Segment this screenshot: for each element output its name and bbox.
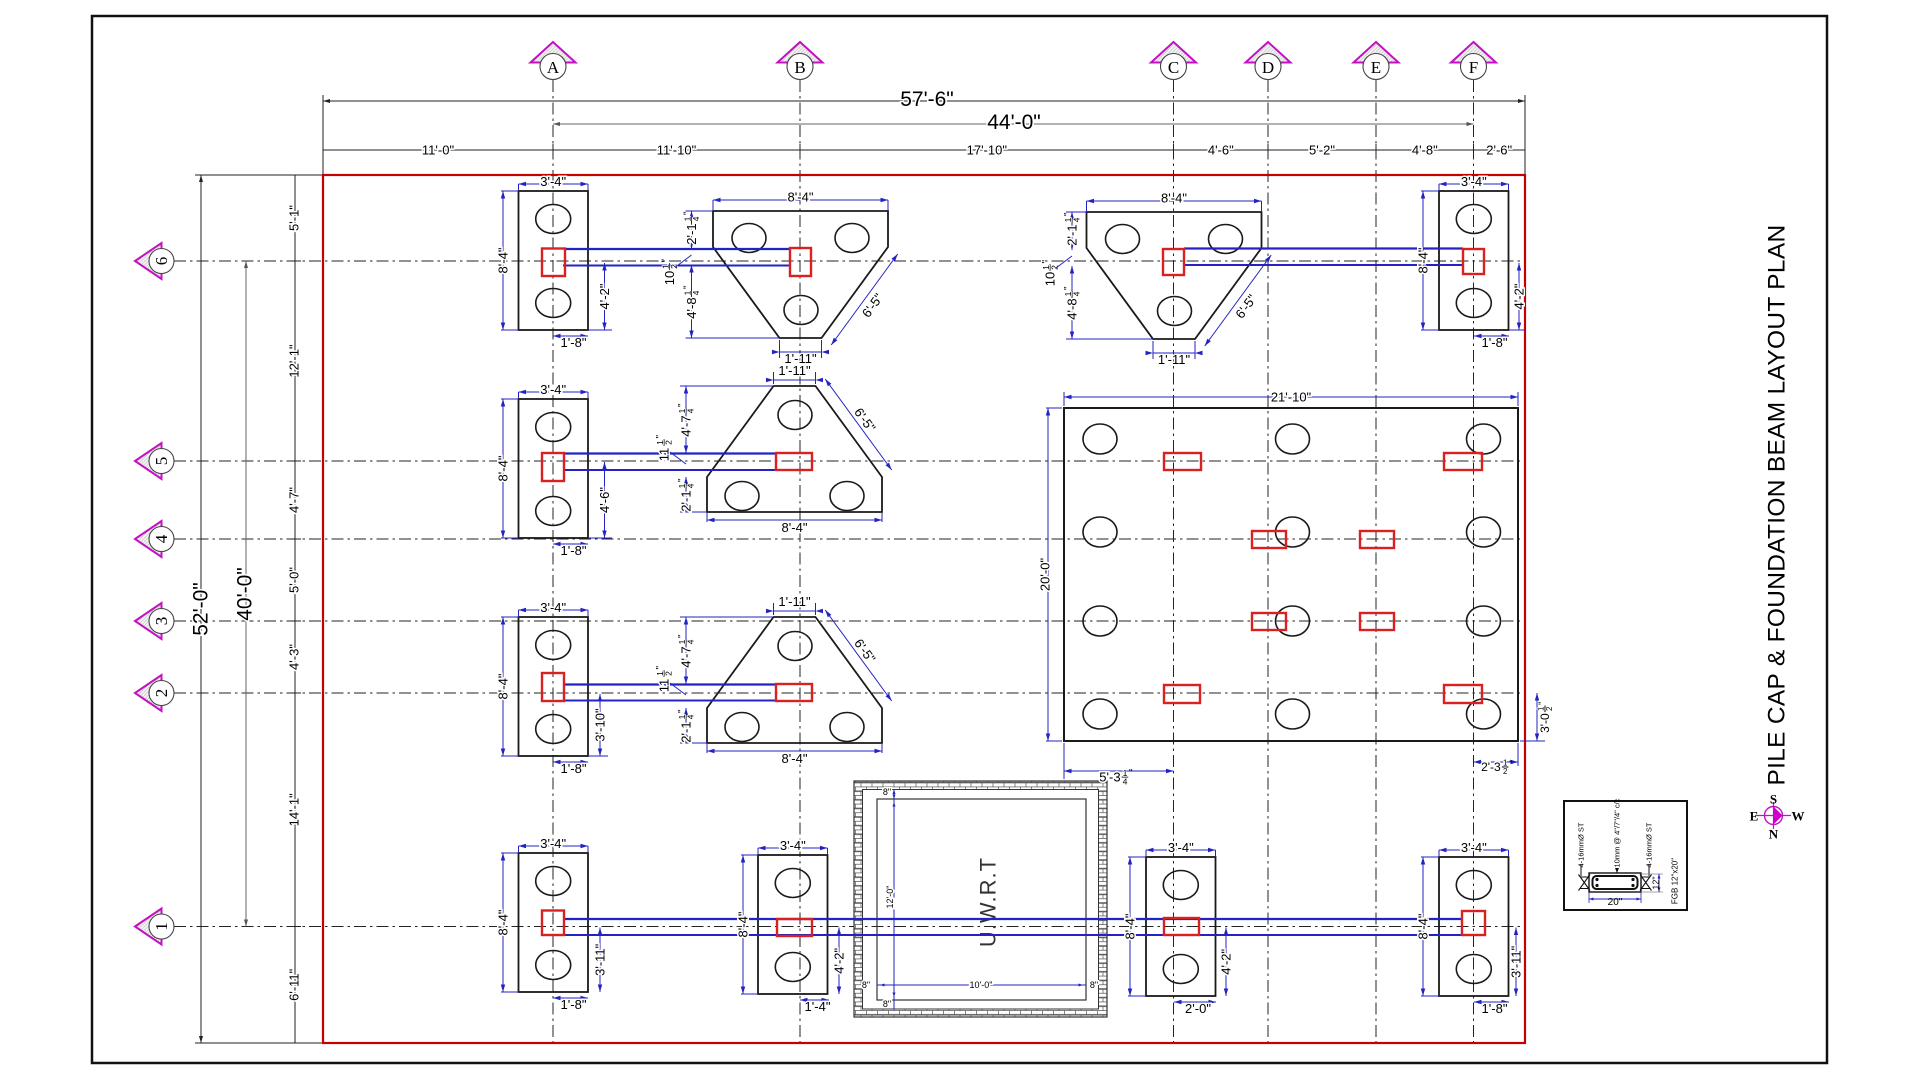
svg-text:4'-7": 4'-7" [287, 487, 302, 513]
svg-text:5'-0": 5'-0" [287, 567, 302, 593]
svg-text:": " [683, 285, 694, 289]
dimension 4'-8 1/4" [1071, 266, 1073, 339]
dimension 8'-4" [706, 513, 708, 522]
svg-text:2'-3: 2'-3 [1481, 760, 1501, 774]
svg-text:1'-8": 1'-8" [561, 335, 587, 350]
svg-text:3'-4": 3'-4" [540, 382, 566, 397]
svg-text:2'-1: 2'-1 [679, 490, 694, 511]
pile cap C1 [1146, 857, 1216, 996]
svg-text:4: 4 [691, 216, 701, 221]
grid line B [799, 80, 801, 1043]
svg-text:8'-4": 8'-4" [782, 751, 808, 766]
grid bubble D [1246, 42, 1291, 80]
dimension 3'-11@ [599, 928, 601, 993]
svg-text:1: 1 [152, 922, 171, 931]
svg-text:8": 8" [883, 999, 891, 1009]
pile cap B1 [758, 855, 828, 994]
dimension 8'-4" [1128, 856, 1146, 858]
svg-text:3: 3 [152, 617, 171, 626]
grid line 3 [174, 620, 1525, 622]
svg-text:5'-1": 5'-1" [287, 205, 302, 231]
svg-text:4'-2": 4'-2" [597, 283, 612, 309]
tank dimension 10'-0" [877, 984, 1086, 986]
foundation beam FGB row 2 A-B [564, 683, 776, 685]
dimension 2'-3 1/2" [1517, 743, 1519, 766]
svg-text:12'-0": 12'-0" [885, 886, 895, 909]
svg-text:W: W [1792, 809, 1805, 824]
svg-text:4'-8: 4'-8 [684, 297, 699, 318]
svg-text:17'-10": 17'-10" [967, 143, 1008, 158]
svg-text:1'-8": 1'-8" [1482, 1001, 1508, 1016]
svg-text:11: 11 [657, 679, 672, 693]
svg-text:20": 20" [1608, 897, 1623, 908]
dimension 1'-11" [773, 603, 775, 615]
column B6 [790, 248, 811, 276]
svg-text:": " [661, 259, 672, 263]
foundation beam FGB row 1 A-F [563, 918, 1462, 920]
svg-text:3'-4": 3'-4" [1461, 840, 1487, 855]
svg-text:2'-6": 2'-6" [1486, 143, 1512, 158]
dimension 3'-4" [1438, 184, 1440, 190]
svg-text:4'-6": 4'-6" [1208, 143, 1234, 158]
column F1 [1462, 911, 1485, 935]
svg-text:8'-4": 8'-4" [736, 911, 751, 937]
dimension 8'-4" [1421, 190, 1439, 192]
svg-text:1'-11": 1'-11" [778, 594, 811, 609]
svg-text:12": 12" [1651, 876, 1661, 889]
raft column D4 [1252, 531, 1286, 548]
dimension 1'-8&quot; [553, 761, 588, 763]
grid line 4 [174, 538, 1525, 540]
svg-text:8'-4": 8'-4" [1123, 913, 1138, 939]
svg-text:3'-4": 3'-4" [1461, 174, 1487, 189]
overall dimension 44'-0" [553, 123, 1474, 125]
tank wall dimension 8" bottom [893, 1000, 895, 1009]
pile cap F1 [1439, 857, 1509, 996]
svg-text:": " [683, 211, 694, 215]
svg-text:4'-6": 4'-6" [597, 487, 612, 513]
dimension 6'-5" [825, 610, 892, 701]
dimension 2'-1 1/4" [1071, 212, 1073, 250]
dimension 8'-4" [501, 398, 519, 400]
svg-text:8'-4": 8'-4" [1416, 247, 1431, 273]
pile cap A6 [519, 191, 589, 330]
svg-text:2: 2 [669, 264, 679, 269]
svg-text:8'-4": 8'-4" [496, 455, 511, 481]
dimension 4'-6@ [604, 462, 606, 538]
grid line F [1473, 80, 1475, 1043]
svg-text:57'-6": 57'-6" [900, 88, 954, 111]
raft column 2-ii [1444, 685, 1482, 703]
svg-text:6: 6 [152, 257, 171, 266]
raft foundation slab [1064, 408, 1518, 741]
raft column E3 [1360, 613, 1394, 630]
svg-text:": " [1509, 758, 1512, 769]
dimension 4'-2@ [604, 263, 606, 330]
svg-text:5'-3: 5'-3 [1099, 770, 1120, 785]
svg-text:11'-10": 11'-10" [657, 143, 697, 158]
pile cap A2 [519, 617, 589, 756]
svg-text:20'-0": 20'-0" [1038, 558, 1053, 592]
svg-text:1'-8": 1'-8" [1482, 335, 1508, 350]
overall dimension 52'-0" [195, 174, 323, 176]
svg-text:2'-1: 2'-1 [679, 721, 694, 742]
dimension 21'-10" [1063, 392, 1065, 406]
dimension 5'-3 1/4" [1063, 743, 1065, 779]
svg-text:40'-0": 40'-0" [234, 567, 257, 621]
svg-text:FGB 12"x20": FGB 12"x20" [1671, 858, 1680, 904]
dimension 3'-4" [1438, 850, 1440, 856]
dimension 3'-4" [1145, 850, 1147, 856]
svg-text:1'-4": 1'-4" [805, 999, 831, 1014]
raft column D3 [1252, 613, 1286, 630]
raft column 5-ii [1444, 453, 1482, 470]
grid bubble 2 [135, 675, 174, 711]
svg-text:N: N [1769, 827, 1779, 842]
dimension 3'-11@ [1515, 928, 1517, 997]
dimension 3'-4" [518, 184, 520, 190]
svg-text:4: 4 [152, 534, 171, 543]
grid line E [1375, 80, 1377, 1043]
svg-text:2: 2 [663, 671, 673, 676]
dimension 8'-4" [712, 200, 714, 210]
grid line 2 [174, 692, 1525, 694]
dimension 11 1/2" beam width [655, 666, 673, 693]
svg-text:8'-4": 8'-4" [788, 190, 814, 205]
pile cap F6 [1439, 191, 1509, 330]
svg-text:4: 4 [685, 408, 695, 413]
pile cap B2 (3-pile) [707, 617, 882, 743]
svg-text:4'-2": 4'-2" [832, 947, 847, 973]
column C6 [1163, 249, 1184, 275]
tank dimension 12'-0" [893, 799, 895, 1000]
dimension 2'-1 1/4" [691, 211, 693, 249]
svg-text:8'-4": 8'-4" [1161, 191, 1187, 206]
column A6 [542, 249, 565, 277]
detail dimension 12" [1641, 873, 1663, 875]
svg-text:F: F [1469, 58, 1478, 77]
foundation beam FGB row 6 C-F [1184, 247, 1463, 249]
svg-text:": " [655, 666, 666, 670]
pile cap A1 [519, 853, 589, 992]
column C1 [1164, 918, 1199, 935]
dimension 4'-2@ [838, 928, 840, 995]
svg-text:3'-4": 3'-4" [780, 838, 806, 853]
svg-text:10: 10 [1043, 272, 1058, 286]
svg-text:11'-0": 11'-0" [422, 143, 455, 158]
grid line A [552, 80, 554, 1043]
svg-text:PILE CAP & FOUNDATION BEAM LAY: PILE CAP & FOUNDATION BEAM LAYOUT PLAN [1764, 225, 1791, 786]
dimension 6'-5" [831, 254, 898, 345]
svg-text:2'-1: 2'-1 [1065, 224, 1080, 245]
grid bubble 1 [135, 909, 174, 945]
dimension 10 1/2" beam width [1041, 260, 1059, 287]
dimension 11 1/2" beam width [655, 435, 673, 462]
svg-text:8'-4": 8'-4" [496, 247, 511, 273]
pile cap B6 (3-pile) [713, 211, 888, 338]
svg-text:4'-7: 4'-7 [679, 646, 694, 667]
svg-text:2: 2 [663, 440, 673, 445]
grid spacing dimensions top [323, 149, 1525, 151]
dimension 3'-4" [518, 846, 520, 852]
overall dimension 57'-6" [322, 95, 324, 175]
pile cap A5 [519, 399, 589, 538]
grid line 1 [174, 926, 1525, 928]
svg-text:": " [677, 709, 688, 713]
grid bubble C [1151, 42, 1196, 80]
dimension 4'-7 1/4" [685, 617, 687, 684]
svg-text:": " [1129, 768, 1133, 779]
dimension 1'-11" [773, 372, 775, 384]
dimension 3'-4" [518, 392, 520, 398]
svg-text:3'-4": 3'-4" [540, 836, 566, 851]
grid line 5 [174, 460, 1525, 462]
dimension 10 1/2" beam width [661, 259, 679, 286]
pile cap B5 (3-pile) [707, 386, 882, 512]
svg-text:4: 4 [1123, 776, 1128, 786]
pile cap C6 (3-pile) [1087, 212, 1262, 339]
svg-text:14'-1": 14'-1" [287, 793, 302, 827]
svg-text:2: 2 [1049, 265, 1059, 270]
svg-text:8'-4": 8'-4" [496, 909, 511, 935]
dimension 1'-8&quot; [553, 335, 588, 337]
svg-text:3'-4": 3'-4" [540, 600, 566, 615]
svg-text:4'-7: 4'-7 [679, 415, 694, 436]
svg-text:44'-0": 44'-0" [987, 111, 1041, 134]
grid line 6 [174, 260, 1525, 262]
dimension 8'-4" [501, 190, 519, 192]
svg-text:": " [677, 634, 688, 638]
svg-text:4: 4 [691, 290, 701, 295]
svg-text:1'-11": 1'-11" [778, 363, 811, 378]
grid bubble 6 [135, 243, 174, 279]
dimension 2'-1 1/4" [685, 477, 687, 512]
svg-text:4'-2": 4'-2" [1512, 283, 1527, 309]
dimension 1'-8&quot; [553, 543, 588, 545]
dimension 8'-4" [706, 744, 708, 753]
dimension 1'-8&quot; [1474, 335, 1509, 337]
column B1 [777, 919, 812, 936]
svg-text:12'-1": 12'-1" [287, 344, 302, 378]
svg-text:3'-4": 3'-4" [540, 174, 566, 189]
tank wall dimension 8" top [893, 790, 895, 800]
raft column 2-i [1164, 685, 1200, 703]
svg-text:1'-11": 1'-11" [1158, 352, 1191, 367]
svg-text:8'-4": 8'-4" [1416, 913, 1431, 939]
svg-text:A: A [547, 58, 560, 77]
grid line C [1173, 80, 1175, 1043]
svg-text:21'-10": 21'-10" [1271, 390, 1312, 405]
dimension 1'-8&quot; [553, 997, 588, 999]
dimension 4'-2@ [1225, 928, 1227, 997]
svg-text:3'-11": 3'-11" [593, 943, 608, 976]
column B2 [776, 684, 812, 701]
svg-text:8": 8" [862, 980, 870, 990]
grid bubble F [1451, 42, 1496, 80]
svg-text:": " [1536, 701, 1547, 704]
svg-text:6'-11": 6'-11" [287, 968, 302, 1001]
svg-text:2: 2 [1545, 707, 1554, 711]
grid bubble A [531, 42, 576, 80]
svg-text:8": 8" [883, 787, 891, 797]
svg-text:10: 10 [662, 271, 677, 285]
svg-text:4'-3": 4'-3" [287, 644, 302, 670]
raft column E4 [1360, 531, 1394, 548]
svg-text:2'-1: 2'-1 [684, 223, 699, 244]
svg-text:5: 5 [152, 457, 171, 466]
foundation beam FGB row 5 A-B [564, 452, 776, 454]
svg-text:E: E [1371, 58, 1381, 77]
svg-text:": " [1063, 286, 1074, 290]
svg-text:11: 11 [657, 448, 672, 462]
svg-text:": " [1063, 212, 1074, 216]
detail dimension 20" [1588, 892, 1590, 903]
svg-text:": " [677, 478, 688, 482]
svg-text:1'-8": 1'-8" [561, 997, 587, 1012]
dimension 8'-4" [501, 852, 519, 854]
dimension 3'-10@ [599, 694, 601, 756]
svg-text:8'-4": 8'-4" [496, 673, 511, 699]
svg-text:8'-4": 8'-4" [782, 520, 808, 535]
svg-text:2: 2 [1503, 767, 1507, 776]
grid line D [1267, 80, 1269, 1043]
dimension 4'-2@ [1518, 263, 1520, 330]
dimension 1'-8&quot; [1474, 1001, 1509, 1003]
north arrow compass [1750, 792, 1805, 842]
svg-text:4: 4 [685, 639, 695, 644]
svg-text:10'-0": 10'-0" [970, 980, 993, 990]
svg-text:3'-11": 3'-11" [1509, 945, 1524, 978]
column B5 [776, 453, 812, 470]
svg-text:": " [655, 435, 666, 439]
dimension 1'-11" [779, 340, 781, 358]
beam section detail FGB 12x20 [1564, 798, 1687, 910]
dimension 8'-4" [1421, 856, 1439, 858]
svg-text:S: S [1770, 792, 1777, 807]
svg-text:2'-0": 2'-0" [1185, 1001, 1211, 1016]
svg-text:4: 4 [685, 483, 695, 488]
grid bubble 4 [135, 521, 174, 557]
column A1 [542, 911, 564, 936]
dimension 6'-5" [825, 379, 892, 470]
svg-text:10mm @ 4"/7"/4" c/c: 10mm @ 4"/7"/4" c/c [1613, 798, 1622, 867]
dimension 2'-1 1/4" [685, 708, 687, 743]
svg-text:3'-10": 3'-10" [593, 708, 608, 742]
dimension 1'-4&quot; [800, 999, 829, 1001]
svg-text:5'-2": 5'-2" [1309, 143, 1335, 158]
raft piles [1083, 424, 1501, 729]
grid bubble 3 [135, 603, 174, 639]
foundation beam FGB row 6 A-B [565, 248, 790, 250]
column A5 [542, 453, 564, 481]
dimension 8'-4" [1086, 201, 1088, 211]
svg-text:4: 4 [1071, 217, 1081, 222]
dimension 3'-4" [518, 610, 520, 616]
svg-text:4: 4 [685, 714, 695, 719]
svg-text:2: 2 [152, 689, 171, 698]
svg-text:4'-8: 4'-8 [1065, 298, 1080, 319]
dimension 20'-0" [1046, 407, 1062, 409]
svg-text:4-16mmØ ST: 4-16mmØ ST [1645, 822, 1654, 867]
underground water reservoir tank U.W.R.T [854, 781, 1107, 1017]
svg-text:D: D [1262, 58, 1274, 77]
dimension 4'-7 1/4" [685, 386, 687, 453]
svg-text:3'-4": 3'-4" [1168, 840, 1194, 855]
svg-text:4'-2": 4'-2" [1219, 948, 1234, 974]
svg-text:4-16mmØ ST: 4-16mmØ ST [1577, 822, 1586, 867]
dimension 1'-11" [1152, 341, 1154, 359]
svg-text:3'-0: 3'-0 [1538, 713, 1552, 733]
grid spacing dimensions left [294, 175, 296, 1043]
dimension 6'-5" [1205, 255, 1272, 346]
svg-text:": " [677, 403, 688, 407]
column F6 [1463, 249, 1484, 274]
grid bubble E [1354, 42, 1399, 80]
svg-text:": " [1041, 260, 1052, 264]
dimension 4'-8 1/4" [691, 265, 693, 338]
svg-text:8": 8" [1090, 980, 1098, 990]
dimension 3'-4" [757, 848, 759, 854]
svg-text:U.W.R.T: U.W.R.T [976, 857, 1001, 947]
dimension 8'-4" [741, 854, 758, 856]
overall dimension 40'-0" [245, 261, 247, 927]
column A2 [542, 673, 564, 701]
svg-text:B: B [794, 58, 805, 77]
svg-text:E: E [1750, 809, 1759, 824]
svg-text:52'-0": 52'-0" [190, 582, 213, 636]
grid bubble B [778, 42, 823, 80]
plan boundary (red) [323, 175, 1525, 1043]
svg-text:C: C [1168, 58, 1179, 77]
dimension 2'-0&quot; [1174, 1001, 1216, 1003]
dimension 3'-0 1/2" [1520, 740, 1545, 742]
raft column 5-i [1164, 453, 1201, 470]
svg-text:1'-8": 1'-8" [561, 543, 587, 558]
svg-text:4'-8": 4'-8" [1412, 143, 1438, 158]
grid bubble 5 [135, 443, 174, 479]
dimension 8'-4" [501, 616, 519, 618]
svg-text:1'-8": 1'-8" [561, 761, 587, 776]
svg-text:4: 4 [1071, 291, 1081, 296]
